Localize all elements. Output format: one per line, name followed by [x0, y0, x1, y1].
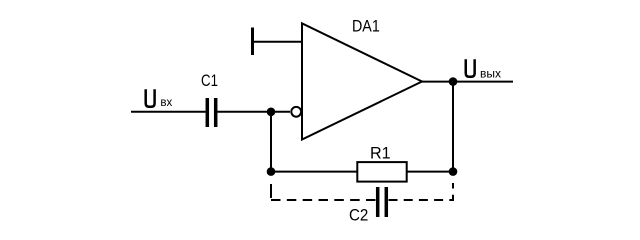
wire input lead (Uвх)	[131, 111, 206, 113]
op-amp DA1 inversion bubble	[291, 107, 301, 117]
svg-text:R1: R1	[370, 143, 391, 162]
node feedback left junction	[267, 167, 276, 176]
svg-text:C1: C1	[201, 72, 218, 91]
node feedback right junction	[449, 167, 458, 176]
capacitor C1	[207, 98, 215, 127]
svg-text:C2: C2	[349, 206, 368, 225]
capacitor C2	[378, 187, 387, 217]
wire right vertical (output to R1)	[452, 82, 454, 172]
resistor R1 body	[357, 162, 406, 182]
wire dashed C2 right branch	[389, 183, 454, 200]
node inverting-input junction	[267, 108, 276, 117]
wire left vertical (junction to R1)	[270, 112, 272, 172]
label Uвых	[466, 59, 501, 80]
terminator bar (grounded non-inverting input)	[251, 28, 254, 56]
svg-text:вых: вых	[480, 66, 501, 80]
wire R1 left segment	[271, 171, 357, 173]
wire C1 to inverting input	[218, 111, 291, 113]
wire output lead (Uвых)	[422, 81, 513, 83]
wire non-inverting input	[253, 41, 303, 43]
wire dashed C2 left branch	[270, 184, 272, 198]
svg-text:DA1: DA1	[352, 17, 380, 35]
svg-text:вх: вх	[160, 97, 172, 109]
node output junction	[449, 77, 458, 86]
label Uвх	[146, 89, 173, 109]
wire R1 right segment	[407, 171, 453, 173]
op-amp DA1 triangle	[302, 23, 422, 139]
